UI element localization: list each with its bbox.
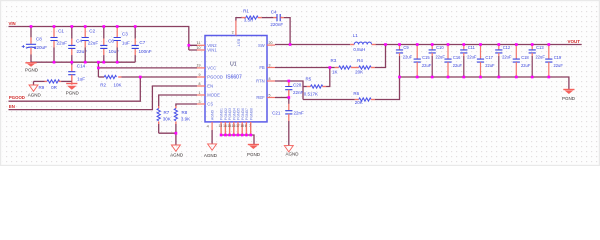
- junction FB R5: [328, 66, 331, 69]
- svg-text:PGND: PGND: [25, 67, 39, 72]
- svg-text:R7: R7: [164, 110, 170, 115]
- resistor R6: [353, 91, 374, 105]
- svg-text:C2: C2: [89, 29, 95, 34]
- svg-text:EN: EN: [207, 84, 213, 89]
- capacitor C14: [68, 62, 85, 84]
- pin BST: [232, 20, 242, 47]
- svg-text:22uF: 22uF: [521, 63, 531, 68]
- svg-text:220uF: 220uF: [34, 45, 47, 50]
- capacitor C16: [444, 45, 462, 78]
- pin FB: [259, 63, 275, 70]
- svg-text:IS6607: IS6607: [226, 74, 242, 80]
- ground AGND R9: [28, 81, 42, 97]
- svg-text:REF: REF: [256, 95, 265, 100]
- ground AGND IC: [204, 144, 218, 158]
- svg-text:10K: 10K: [114, 82, 122, 87]
- wire MODE: [159, 95, 197, 106]
- svg-text:AGND: AGND: [204, 153, 218, 158]
- svg-text:11: 11: [197, 41, 201, 45]
- wire BST bootstrap: [236, 18, 242, 21]
- ground PGND output: [562, 90, 576, 102]
- pin EN: [197, 82, 213, 89]
- wire output ground rail: [400, 77, 569, 89]
- junction REF C21: [287, 96, 290, 99]
- svg-text:22uF: 22uF: [502, 55, 512, 60]
- wire CS: [176, 104, 197, 106]
- svg-text:22uF: 22uF: [536, 55, 546, 60]
- capacitor C20: [285, 81, 303, 98]
- junction SW C4: [289, 43, 292, 46]
- svg-text:22nF: 22nF: [293, 90, 304, 95]
- svg-text:CS: CS: [207, 102, 213, 107]
- resistor R1: [242, 8, 262, 22]
- svg-text:C4: C4: [76, 39, 82, 44]
- node PGOOD: [9, 95, 25, 100]
- svg-text:22uF: 22uF: [422, 63, 432, 68]
- wire RTN: [275, 81, 303, 100]
- svg-text:20: 20: [269, 41, 273, 45]
- svg-text:8: 8: [269, 77, 271, 81]
- capacitor C15: [414, 45, 432, 78]
- resistor R3: [331, 58, 352, 74]
- wire C4 to SW: [284, 18, 290, 45]
- svg-text:FB: FB: [259, 65, 265, 70]
- resistor R7: [157, 106, 171, 133]
- svg-text:30K: 30K: [163, 117, 171, 122]
- capacitor C4 bootstrap: [270, 9, 283, 27]
- svg-text:VIN: VIN: [9, 21, 16, 26]
- pin PGND5: [236, 108, 241, 135]
- capacitor C2: [82, 27, 99, 63]
- pin VIN2: [197, 41, 218, 48]
- wire R1 to C4: [262, 17, 274, 19]
- pin PGND3: [228, 108, 233, 135]
- wire R6 to output ground: [375, 77, 400, 100]
- svg-text:C18: C18: [521, 55, 529, 60]
- svg-text:1: 1: [199, 91, 201, 95]
- svg-text:0.8uH: 0.8uH: [353, 47, 365, 52]
- svg-text:C19: C19: [554, 55, 562, 60]
- svg-text:BST: BST: [237, 39, 242, 47]
- svg-text:L1: L1: [353, 33, 359, 38]
- svg-text:5: 5: [269, 93, 271, 97]
- svg-text:3: 3: [199, 100, 201, 104]
- svg-text:SW: SW: [258, 43, 265, 48]
- svg-text:1uF: 1uF: [77, 77, 85, 82]
- svg-text:R8: R8: [182, 110, 188, 115]
- svg-text:2: 2: [232, 31, 234, 35]
- capacitor C21: [272, 98, 304, 146]
- svg-text:AGND: AGND: [170, 153, 184, 158]
- svg-text:C4: C4: [271, 9, 277, 14]
- wire REF: [275, 97, 289, 99]
- svg-text:15: 15: [228, 124, 232, 128]
- pin REF: [256, 93, 275, 100]
- svg-text:C11: C11: [468, 45, 476, 50]
- svg-text:6: 6: [245, 124, 247, 128]
- capacitor C6: [100, 27, 119, 63]
- junction dots VIN rail: [30, 25, 137, 28]
- wire VCC: [98, 62, 197, 77]
- wire R3 R4: [351, 67, 359, 69]
- junction VCC R2: [97, 67, 100, 70]
- svg-text:C16: C16: [453, 55, 461, 60]
- svg-text:1uF: 1uF: [122, 40, 130, 45]
- svg-text:22uF: 22uF: [57, 41, 68, 46]
- wire EN: [9, 86, 198, 110]
- svg-text:20K: 20K: [355, 100, 363, 105]
- pin PGOOD: [197, 73, 223, 80]
- svg-text:22nF: 22nF: [294, 111, 305, 116]
- resistor R5: [303, 77, 326, 97]
- svg-text:C12: C12: [503, 45, 511, 50]
- wire VOUT rail: [376, 44, 582, 46]
- wire AGND pin drop: [211, 130, 213, 144]
- junction dots VOUT rail: [398, 43, 550, 46]
- svg-text:R2: R2: [100, 82, 106, 87]
- capacitor C18: [513, 45, 531, 78]
- svg-text:22uF: 22uF: [436, 55, 446, 60]
- svg-text:R4: R4: [357, 58, 363, 63]
- svg-text:C6: C6: [108, 39, 114, 44]
- pin PGND7: [245, 108, 249, 135]
- svg-text:PGOOD: PGOOD: [9, 95, 25, 100]
- svg-text:C10: C10: [436, 45, 444, 50]
- pin PGND4: [232, 108, 237, 135]
- svg-text:C20: C20: [293, 82, 302, 87]
- capacitor C12: [495, 45, 512, 78]
- capacitor C9: [396, 45, 413, 78]
- inductor L1: [350, 33, 375, 52]
- junction dots output ground rail: [416, 76, 550, 79]
- svg-text:10: 10: [197, 46, 201, 50]
- svg-text:14: 14: [223, 124, 227, 128]
- svg-text:C8: C8: [36, 36, 42, 41]
- ground PGND input rail: [25, 63, 39, 73]
- svg-text:C17: C17: [485, 55, 493, 60]
- pin AGND bottom: [207, 110, 215, 130]
- svg-text:U1: U1: [230, 62, 237, 68]
- svg-text:3: 3: [269, 63, 271, 67]
- capacitor C1: [50, 27, 67, 63]
- svg-text:C7: C7: [139, 40, 145, 45]
- op-amp U1 IS6607 body: [205, 36, 267, 122]
- svg-text:C15: C15: [422, 55, 430, 60]
- svg-text:4: 4: [207, 125, 209, 129]
- wire R5 to FB: [326, 68, 330, 87]
- wire R6 row: [303, 99, 355, 101]
- svg-text:MODE: MODE: [207, 93, 220, 98]
- wire SW to L1: [275, 44, 350, 46]
- node VIN: [9, 21, 16, 26]
- svg-text:100nF: 100nF: [139, 49, 152, 54]
- svg-text:VOUT: VOUT: [568, 39, 581, 44]
- pin CS: [197, 100, 213, 107]
- svg-text:VIN1: VIN1: [207, 48, 217, 53]
- svg-text:19: 19: [197, 64, 201, 68]
- ground PGND C14: [66, 84, 80, 96]
- svg-text:EN: EN: [9, 104, 15, 109]
- ground PGND bus: [247, 145, 261, 157]
- capacitor C13: [529, 45, 546, 78]
- svg-text:3.9K: 3.9K: [181, 117, 190, 122]
- junction R7 R8 bottom: [175, 132, 178, 135]
- svg-text:C21: C21: [272, 111, 281, 116]
- capacitor C10: [429, 45, 446, 78]
- capacitor C7: [132, 27, 152, 63]
- svg-text:22uF: 22uF: [88, 41, 99, 46]
- svg-text:R3: R3: [331, 58, 337, 63]
- junction dots input ground rail: [53, 61, 119, 64]
- wire PGND bus: [221, 135, 254, 144]
- svg-text:8: 8: [199, 82, 201, 86]
- capacitor C8: [22, 27, 47, 63]
- svg-text:RTN: RTN: [256, 79, 265, 84]
- svg-text:0R: 0R: [51, 85, 58, 90]
- svg-text:7: 7: [249, 124, 251, 128]
- svg-text:220nF: 220nF: [270, 22, 283, 27]
- pin SW: [258, 41, 275, 48]
- svg-text:C3: C3: [122, 32, 128, 37]
- pin MODE: [197, 91, 220, 98]
- wire input ground rail: [31, 61, 135, 63]
- svg-text:C14: C14: [77, 64, 86, 69]
- svg-text:0.517K: 0.517K: [304, 91, 318, 96]
- svg-text:9: 9: [199, 73, 201, 77]
- capacitor C3: [114, 27, 130, 63]
- svg-text:PGND: PGND: [562, 96, 576, 101]
- svg-text:3.3R: 3.3R: [244, 18, 254, 23]
- svg-text:R9: R9: [39, 85, 45, 90]
- junction VIN pins: [187, 44, 190, 47]
- wire VIN rail: [9, 27, 189, 51]
- capacitor C17: [477, 45, 495, 78]
- capacitor C19: [545, 45, 563, 78]
- svg-text:PGOOD: PGOOD: [207, 75, 223, 80]
- svg-text:18: 18: [240, 124, 244, 128]
- svg-text:R1: R1: [243, 8, 249, 13]
- svg-text:R5: R5: [306, 77, 312, 82]
- svg-text:C1: C1: [58, 29, 64, 34]
- capacitor C11: [460, 45, 477, 78]
- wire FB: [275, 67, 335, 69]
- svg-text:AGND: AGND: [211, 110, 215, 121]
- svg-text:22uF: 22uF: [453, 63, 463, 68]
- resistor R8: [174, 106, 190, 133]
- svg-text:AGND: AGND: [286, 152, 300, 157]
- svg-text:C9: C9: [403, 45, 409, 50]
- pin PGND6: [240, 108, 244, 135]
- svg-text:VCC: VCC: [207, 66, 216, 71]
- resistor R9: [34, 80, 72, 90]
- node VOUT: [568, 39, 581, 44]
- capacitor C4: [68, 27, 87, 63]
- pin PGND8: [249, 108, 253, 135]
- ground AGND R7 R8: [170, 145, 184, 158]
- svg-text:1K: 1K: [332, 69, 338, 74]
- svg-text:22uF: 22uF: [554, 63, 564, 68]
- wire VIN to pins: [189, 45, 197, 50]
- svg-text:22uF: 22uF: [485, 63, 495, 68]
- junction RTN C20: [287, 80, 290, 83]
- pin VCC: [197, 64, 217, 71]
- junction PGOOD R2: [139, 76, 142, 79]
- svg-text:16: 16: [232, 124, 236, 128]
- svg-text:13: 13: [219, 124, 223, 128]
- junction L1 R4: [384, 43, 387, 46]
- svg-text:C13: C13: [536, 45, 544, 50]
- svg-text:22uF: 22uF: [403, 55, 413, 60]
- svg-text:PGND: PGND: [66, 90, 80, 95]
- svg-text:17: 17: [236, 124, 240, 128]
- wire R4 to VOUT: [375, 45, 386, 68]
- junction R6 output ground: [398, 76, 401, 79]
- resistor R2: [98, 75, 140, 87]
- junction dots PGND bus: [220, 134, 252, 137]
- pin PGND1: [219, 108, 224, 135]
- wire R7 R8 bottoms: [159, 133, 176, 145]
- svg-text:PGND8: PGND8: [249, 108, 253, 120]
- ground AGND C21: [284, 146, 299, 157]
- node EN: [9, 104, 15, 109]
- svg-text:PGND: PGND: [247, 152, 261, 157]
- wire PGOOD: [9, 77, 198, 101]
- svg-text:22uF: 22uF: [467, 55, 477, 60]
- pin VIN1: [197, 46, 218, 53]
- resistor R4: [355, 58, 375, 74]
- pin RTN: [256, 77, 275, 84]
- svg-text:20K: 20K: [355, 69, 363, 74]
- svg-text:AGND: AGND: [28, 93, 42, 98]
- svg-text:R6: R6: [353, 91, 359, 96]
- pin PGND2: [223, 108, 228, 135]
